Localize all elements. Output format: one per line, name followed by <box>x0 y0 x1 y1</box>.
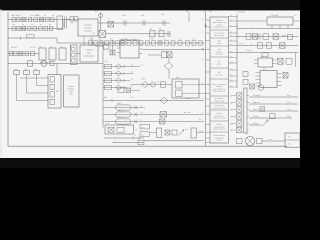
wire amp out1 <box>182 84 199 86</box>
svg-text:ПИК-2: ПИК-2 <box>117 109 122 112</box>
xbox right of DA2 <box>278 58 284 64</box>
arrow diag <box>179 130 184 136</box>
xbox above amp <box>126 88 131 93</box>
svg-text:внешних входов: внешних входов <box>213 107 226 109</box>
PSU block <box>48 75 61 109</box>
IC DA2 right pins <box>273 59 277 61</box>
fuse F1 <box>14 71 20 75</box>
fuse F3 <box>34 71 40 75</box>
resistor on rail <box>171 41 175 45</box>
thermistor <box>19 51 24 56</box>
vertical feed x103 <box>102 46 104 128</box>
svg-text:ХР5: ХР5 <box>203 10 206 13</box>
svg-text:а3: а3 <box>202 48 204 50</box>
AV rail 1 <box>249 94 298 97</box>
wire y55 stub <box>148 54 161 56</box>
svg-text:ВП1: ВП1 <box>95 10 98 13</box>
box y36 e <box>288 35 293 40</box>
wire y36.5 <box>237 36 298 38</box>
svg-text:управления МЦ: управления МЦ <box>213 26 226 29</box>
resistor on rail <box>110 41 114 45</box>
wire y142.5 <box>112 142 144 144</box>
diamond diode x166 <box>164 62 173 69</box>
PSU input cell 2 <box>50 84 55 89</box>
resistor <box>39 26 43 30</box>
connector strip contacts <box>231 93 250 133</box>
filter coil box <box>57 16 63 30</box>
svg-text:видео входа: видео входа <box>214 100 224 102</box>
IC DA1 left pin <box>117 47 120 49</box>
vertical rect x192 <box>191 128 197 138</box>
box y36 a <box>246 34 251 39</box>
svg-text:ПР1: ПР1 <box>14 68 17 71</box>
control block row text 7 <box>212 83 227 93</box>
terminal box bottom right <box>285 133 300 147</box>
IC DA1 right pin <box>139 44 143 46</box>
varistor <box>40 17 44 21</box>
wire y84.5 <box>131 84 173 86</box>
xbox on rail y114 <box>160 112 167 118</box>
diode on rail <box>158 41 162 45</box>
xbox near circle <box>250 84 255 89</box>
svg-text:программ: программ <box>215 53 223 55</box>
resistor <box>12 17 15 21</box>
svg-text:ПИК-3: ПИК-3 <box>117 116 122 119</box>
resistor on rail <box>139 41 143 45</box>
tuner pin drop 2 <box>279 25 281 29</box>
tuner box <box>267 17 293 25</box>
resistor on rail <box>146 41 150 45</box>
wire into PSU y93 <box>27 92 49 94</box>
vert x168 down2 <box>168 70 170 79</box>
resistor on rail <box>105 41 109 45</box>
svg-text:а7: а7 <box>202 112 204 114</box>
resistor <box>29 17 32 21</box>
vert x295 <box>295 53 297 68</box>
IC DA1 right pin <box>139 53 143 55</box>
connector XP2 <box>143 21 145 26</box>
top letterbox bar <box>0 0 300 10</box>
circle x153 <box>151 82 156 87</box>
svg-text:а1: а1 <box>202 19 204 21</box>
svg-text:и блоки питания: и блоки питания <box>213 116 226 119</box>
svg-text:а2: а2 <box>202 32 204 34</box>
box y45 b <box>267 43 272 48</box>
PSU input cell 1 <box>50 77 55 82</box>
inner box amp2 <box>176 90 183 97</box>
svg-text:С3: С3 <box>131 78 133 81</box>
box on rail y118 <box>270 114 276 119</box>
diamond x145 <box>142 82 149 88</box>
resistor on rail <box>152 41 156 45</box>
xbox y36 d <box>273 34 279 39</box>
control block row text 3 <box>217 40 222 45</box>
ladder rail 3 with fuse and diode <box>103 78 133 83</box>
svg-text:ВЧ СКМ: ВЧ СКМ <box>184 111 191 114</box>
box y141 <box>138 140 144 145</box>
wire y132 out <box>197 132 205 134</box>
ladder rail 1 with fuse and diode <box>103 64 140 69</box>
junction dot DA1 out <box>203 49 204 50</box>
AV rail 5 <box>249 123 262 125</box>
capacitor <box>22 26 26 30</box>
cap bars y36 <box>258 34 260 40</box>
schematic left border <box>7 12 9 146</box>
resistor <box>17 26 20 30</box>
PSU input cell 3 <box>50 92 55 97</box>
connector VP2 <box>163 21 165 26</box>
box y36 c <box>263 34 269 39</box>
connector XT3 strip <box>244 88 247 133</box>
bottom letterbox bar <box>0 158 300 168</box>
circle volume <box>258 85 264 91</box>
IC DA1 left pin <box>117 52 120 54</box>
xbox y45 c <box>280 43 286 48</box>
box x172 <box>172 130 177 135</box>
control block row text 11 <box>213 123 225 130</box>
svg-text:приём: приём <box>217 62 223 65</box>
resistor on rail <box>133 41 137 45</box>
resistor <box>25 51 29 56</box>
wire y28.5 <box>237 28 300 30</box>
resistor <box>49 26 52 30</box>
xbox on y120 <box>160 119 166 124</box>
diamond on y100 <box>160 97 168 103</box>
varistor <box>22 17 26 21</box>
svg-text:13: 13 <box>250 35 252 37</box>
resistor <box>28 26 31 30</box>
posistor box on y63 <box>28 61 33 66</box>
svg-text:СТ15-2: СТ15-2 <box>30 46 36 49</box>
bridge rectifier VD <box>99 31 106 38</box>
box right2 of DA2 <box>286 58 292 64</box>
box left of DA3 a <box>243 71 248 76</box>
resistor on rail <box>116 41 120 45</box>
ladder rail 2 with fuse and diode <box>103 71 133 76</box>
transformer winding box <box>108 22 114 28</box>
tuner pin drop 1 <box>271 25 273 29</box>
svg-text:а6: а6 <box>202 97 204 99</box>
wire fuse3 drop <box>36 74 38 85</box>
resistor on rail <box>89 41 93 45</box>
box left of DA3 b <box>243 79 248 84</box>
schematic bottom border <box>8 145 287 147</box>
svg-text:СМ ДМВ: СМ ДМВ <box>271 14 279 17</box>
relay block 2 <box>49 48 56 60</box>
svg-text:гр: гр <box>251 118 253 120</box>
wire long rail y43 <box>57 42 204 44</box>
svg-text:блока цветности: блока цветности <box>213 90 226 93</box>
IC DA3 <box>260 71 277 88</box>
left edge shading <box>1 9 2 158</box>
label on y38 wire <box>27 35 35 38</box>
wire degauss out <box>76 53 80 55</box>
svg-text:ПР3: ПР3 <box>34 68 37 71</box>
diode X on vert <box>110 50 115 55</box>
resistor on rail <box>199 41 203 45</box>
rect pair x162 <box>162 52 167 58</box>
box x162 y82 <box>161 82 166 87</box>
diode on rail <box>121 41 125 45</box>
speaker circle <box>245 136 254 145</box>
vertical bus x237 <box>236 14 238 88</box>
svg-text:ХS1: ХS1 <box>209 10 212 13</box>
wire y140.8 right <box>144 140 204 142</box>
wire rail y34 <box>106 33 171 35</box>
xbox on rail y111 <box>260 107 265 112</box>
IC DA2 small top <box>262 53 268 57</box>
svg-text:ПВ2 R7: ПВ2 R7 <box>11 46 17 49</box>
wire into net-filter <box>71 21 73 24</box>
wire amp to bus1 <box>199 84 206 86</box>
svg-text:питания: питания <box>84 30 92 33</box>
network filter text <box>84 24 92 33</box>
control block row text 9 <box>213 104 226 109</box>
cap vert line <box>112 40 114 55</box>
bus arrow <box>204 24 206 26</box>
switch SA box <box>150 31 156 37</box>
wire y52.5 <box>237 52 298 54</box>
control block left pins <box>206 20 211 143</box>
speaker box right <box>257 138 263 143</box>
xbox x166 <box>165 130 170 135</box>
svg-text:Э1 (табл): Э1 (табл) <box>238 11 246 14</box>
svg-text:ПВС 2х0,75: ПВС 2х0,75 <box>11 14 21 17</box>
wire amp out2 <box>182 92 199 94</box>
IC DA2 <box>258 58 273 67</box>
resistor on rail <box>186 41 190 45</box>
resistor <box>12 26 15 30</box>
svg-text:С1: С1 <box>131 64 133 67</box>
control block row text 8 <box>214 97 224 102</box>
tuner right wire <box>293 20 300 22</box>
svg-text:Сетевой: Сетевой <box>85 49 92 52</box>
wire rail y100.5 <box>103 100 204 102</box>
wire y138 <box>104 137 144 139</box>
AV rail 3 <box>249 108 298 111</box>
left label box 1 <box>140 124 150 129</box>
IC DA3 pins <box>256 73 282 87</box>
svg-text:блок: блок <box>87 51 91 54</box>
control block row text 10 <box>213 112 226 119</box>
resistor <box>17 17 20 21</box>
mains switch text <box>84 49 95 58</box>
resistor <box>14 51 18 56</box>
wire rail2 join <box>62 20 64 29</box>
arrow diag right <box>263 120 269 126</box>
svg-text:ВП2: ВП2 <box>161 13 165 16</box>
fuse F2 <box>24 71 30 75</box>
wire rail2 <box>8 28 63 30</box>
control block row text 1 <box>212 19 228 29</box>
degauss coil L1 <box>41 61 47 67</box>
svg-text:R-МЗ: R-МЗ <box>141 78 145 81</box>
svg-text:МПУ network: МПУ network <box>214 34 224 37</box>
resistor on rail <box>178 41 182 45</box>
speaker box left <box>237 138 243 143</box>
inner box2 <box>117 127 124 132</box>
relay block 1 <box>39 48 46 60</box>
PSU input cell 4 <box>50 99 55 104</box>
ladder rail 4 with fuse and diode <box>103 85 133 90</box>
control block row text 5 <box>217 60 223 65</box>
small comps above amp <box>118 88 124 93</box>
svg-text:С4: С4 <box>131 85 133 88</box>
resistor <box>10 51 13 56</box>
delay line rail 1 <box>103 102 145 110</box>
svg-text:Сетевой: Сетевой <box>84 24 92 27</box>
delay line rail 3 <box>103 116 145 124</box>
svg-text:фильтр: фильтр <box>85 27 93 30</box>
wire rail1 to filter <box>67 19 79 21</box>
svg-text:вых: вых <box>269 139 272 141</box>
svg-text:а4: а4 <box>202 58 204 60</box>
wire drop x57 to fuses <box>56 64 58 76</box>
fuse holder circle <box>98 13 102 17</box>
connector XP4 <box>124 21 126 26</box>
wire y90 stub <box>131 89 141 91</box>
vert x168 down <box>168 58 170 63</box>
wire fuse vert <box>100 12 102 31</box>
svg-text:экрана: экрана <box>217 139 222 141</box>
vertical rect x158 <box>157 128 162 138</box>
control block row text 12 <box>214 134 225 141</box>
resistor <box>51 17 54 21</box>
control block row text 4 <box>215 48 223 55</box>
left label box 2 <box>140 132 150 137</box>
wire y45.5 <box>237 45 298 47</box>
svg-text:АГНВ: АГНВ <box>149 38 154 41</box>
switch SB box <box>159 31 164 37</box>
vertical stub x189 <box>188 12 190 22</box>
resistor <box>31 51 35 56</box>
diode on rail <box>99 41 103 45</box>
wire DA1 out right <box>143 49 205 51</box>
tuner left wire <box>237 20 267 22</box>
small caps pair2 <box>75 17 79 22</box>
svg-text:апр: апр <box>294 15 297 17</box>
wire lower chain <box>8 53 39 55</box>
svg-text:выход: выход <box>253 123 258 125</box>
wire rail y120 right part <box>145 121 204 123</box>
svg-text:контроль: контроль <box>216 74 223 76</box>
svg-text:ПР2: ПР2 <box>24 68 27 71</box>
vertical bus x205.5 <box>205 12 207 146</box>
wire rail1 <box>8 19 70 21</box>
wire into PSU y100 <box>17 100 49 102</box>
wire into PSU y85 <box>37 85 49 87</box>
block network filter <box>78 19 98 36</box>
svg-text:ХР2: ХР2 <box>141 14 144 17</box>
wire net-filter to switch A <box>83 36 85 45</box>
block mains switch <box>80 45 98 62</box>
capacitor C1 plates <box>65 17 67 29</box>
AV rail 4 <box>249 115 292 118</box>
xbox pair x167 <box>167 52 172 58</box>
resistor <box>34 17 38 21</box>
svg-text:С2: С2 <box>131 71 133 74</box>
resistor on rail <box>165 41 169 45</box>
resistor on rail <box>127 41 131 45</box>
posistor inner squares <box>72 48 75 52</box>
wire mains y38 <box>8 37 57 39</box>
degauss posistor tall box <box>71 45 78 65</box>
wire y63 <box>8 63 103 65</box>
svg-text:R50: R50 <box>104 96 107 99</box>
control block row text 6 <box>216 71 223 76</box>
wire y132 mid <box>150 132 157 134</box>
composite filter box <box>105 125 134 134</box>
big box amp <box>172 79 199 98</box>
wire fuse2 drop <box>26 74 28 93</box>
ticks y138 <box>132 137 134 140</box>
svg-text:14: 14 <box>250 44 252 46</box>
IC DA2 left pins <box>254 59 258 61</box>
svg-text:ОТЦ: ОТЦ <box>69 93 73 96</box>
relay block 3 <box>59 48 66 60</box>
wire amp to bus2 <box>199 92 206 94</box>
AV rail 2 <box>249 101 298 104</box>
wire into PSU y78 <box>20 77 48 79</box>
svg-text:ДОЗ: ДОЗ <box>176 76 179 79</box>
IC DA1 right pin <box>139 48 143 50</box>
box y45 a <box>258 43 263 48</box>
IC DA1 left pin <box>117 43 120 45</box>
speaker wire out <box>262 140 285 142</box>
wire drop x57 <box>56 38 58 43</box>
resistor <box>46 17 50 21</box>
svg-text:ПИК-1: ПИК-1 <box>117 102 122 105</box>
control unit block U10 frame <box>210 17 229 143</box>
svg-text:НЧ СКД: НЧ СКД <box>184 97 191 100</box>
tick y100 <box>111 99 113 102</box>
tuner pin drop 3 <box>287 25 289 29</box>
inner xbox <box>108 127 114 132</box>
xbox y36 b <box>253 34 258 39</box>
connector end <box>168 31 170 37</box>
inner box amp1 <box>176 82 183 89</box>
resistor on rail <box>94 41 98 45</box>
wire fuse1 drop <box>16 74 18 100</box>
small box on y63 <box>50 61 54 66</box>
svg-text:а5: а5 <box>202 83 204 85</box>
resistor <box>44 26 48 30</box>
svg-text:С2: С2 <box>157 80 159 83</box>
xbox right of DA3 <box>283 73 288 79</box>
resistor <box>33 26 37 30</box>
IC DA1 <box>120 40 139 58</box>
control block row text 2 <box>214 32 225 37</box>
svg-text:СЛ-3: СЛ-3 <box>130 96 134 99</box>
svg-text:ПЗ: ПЗ <box>135 129 137 132</box>
svg-text:коммутации: коммутации <box>84 54 95 57</box>
delay line rail 2 <box>103 109 204 117</box>
svg-text:12: 12 <box>250 27 252 29</box>
interconnect block <box>64 75 80 107</box>
wire net-filter to switch B <box>91 36 93 45</box>
svg-text:яркости экрана: яркости экрана <box>213 128 225 130</box>
resistor on rail <box>192 41 196 45</box>
control block right pins <box>229 17 238 88</box>
wire rail y23 <box>98 22 170 24</box>
wire DA1 in <box>95 45 104 47</box>
interconnect text <box>67 85 75 96</box>
svg-text:15: 15 <box>250 51 252 53</box>
choke box <box>104 45 110 50</box>
svg-text:ХР4: ХР4 <box>122 14 125 17</box>
tick on y38 <box>20 37 22 40</box>
small caps pair <box>70 17 74 22</box>
